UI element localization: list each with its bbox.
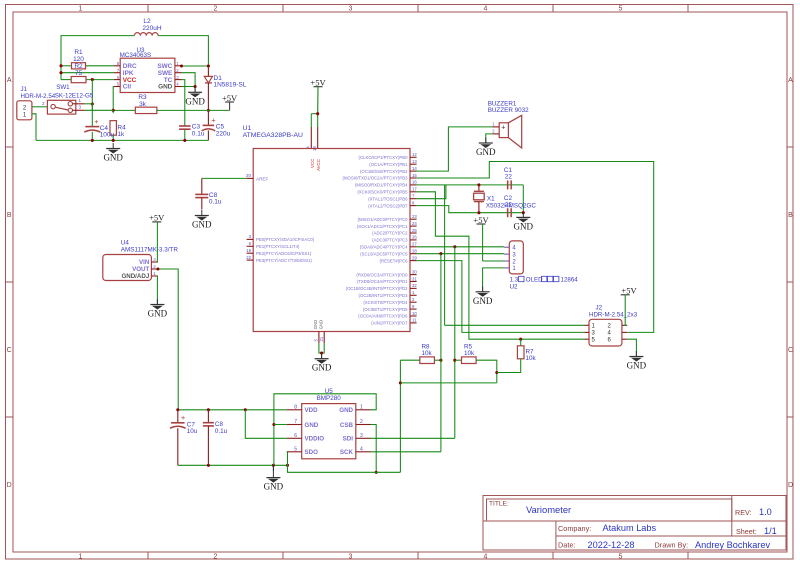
svg-text:GND: GND — [192, 220, 212, 230]
svg-text:Drawn By:: Drawn By: — [655, 541, 689, 550]
svg-text:(XTAL2/TOSC2)PB7: (XTAL2/TOSC2)PB7 — [368, 203, 408, 208]
svg-text:32: 32 — [412, 283, 417, 288]
svg-text:16: 16 — [412, 180, 417, 185]
svg-text:Company:: Company: — [558, 524, 591, 533]
svg-text:D: D — [788, 482, 793, 489]
svg-text:B: B — [7, 212, 12, 219]
svg-text:12: 12 — [412, 152, 417, 157]
svg-text:AVCC: AVCC — [316, 159, 321, 171]
svg-text:B: B — [788, 212, 793, 219]
svg-text:3: 3 — [349, 554, 353, 561]
svg-text:TITLE:: TITLE: — [489, 501, 509, 508]
svg-text:120: 120 — [73, 56, 84, 63]
svg-text:75: 75 — [75, 70, 83, 77]
svg-text:C: C — [788, 347, 793, 354]
svg-text:+5V: +5V — [473, 215, 489, 225]
svg-text:14: 14 — [412, 166, 417, 171]
svg-text:(XCK0/T0/PTCXY)PD4: (XCK0/T0/PTCXY)PD4 — [363, 300, 408, 305]
svg-text:4: 4 — [360, 447, 363, 453]
svg-text:10: 10 — [412, 311, 417, 316]
svg-text:+5V: +5V — [621, 286, 637, 296]
svg-text:1: 1 — [79, 6, 83, 13]
svg-text:+5V: +5V — [149, 213, 165, 223]
svg-text:24: 24 — [412, 221, 417, 226]
svg-text:5: 5 — [619, 554, 623, 561]
svg-text:4: 4 — [484, 554, 488, 561]
svg-text:(OC1B/SS0/PTCXY)PB2: (OC1B/SS0/PTCXY)PB2 — [360, 169, 408, 174]
svg-text:SDO: SDO — [305, 449, 319, 456]
svg-text:AMS1117MK-3.3/TR: AMS1117MK-3.3/TR — [121, 246, 179, 253]
svg-text:3: 3 — [360, 433, 363, 439]
svg-text:3: 3 — [349, 6, 353, 13]
svg-text:100u: 100u — [100, 132, 115, 139]
svg-text:PE2(PTCY/ADC6/ICP3/SS1): PE2(PTCY/ADC6/ICP3/SS1) — [256, 251, 312, 256]
svg-text:6: 6 — [294, 433, 297, 439]
svg-text:BUZZER 9032: BUZZER 9032 — [488, 107, 529, 114]
svg-text:VOUT: VOUT — [132, 266, 149, 273]
svg-text:29: 29 — [412, 255, 417, 260]
svg-text:20: 20 — [246, 173, 252, 178]
svg-text:AREF: AREF — [256, 177, 268, 182]
svg-text:VCC: VCC — [310, 159, 315, 168]
svg-text:BMP280: BMP280 — [317, 395, 342, 402]
svg-text:CSB: CSB — [340, 422, 354, 429]
svg-text:VDDIO: VDDIO — [305, 436, 325, 443]
svg-text:(OC0A/AIN0/PTCXY)PD6: (OC0A/AIN0/PTCXY)PD6 — [358, 314, 408, 319]
svg-text:28: 28 — [412, 249, 417, 254]
svg-text:220u: 220u — [216, 130, 231, 137]
svg-text:GND/ADJ: GND/ADJ — [121, 273, 149, 280]
svg-text:7: 7 — [294, 419, 297, 425]
svg-text:(MISO1/ADC0/PTCY)PC0: (MISO1/ADC0/PTCY)PC0 — [358, 217, 409, 222]
svg-text:SW1: SW1 — [56, 84, 70, 91]
svg-text:10k: 10k — [422, 350, 433, 357]
svg-text:10k: 10k — [464, 350, 475, 357]
svg-text:+5V: +5V — [310, 78, 326, 88]
svg-text:A: A — [788, 77, 793, 84]
svg-text:(MOSI0/TXD1/OC2A/PTCXY)PB3: (MOSI0/TXD1/OC2A/PTCXY)PB3 — [343, 176, 409, 181]
svg-text:(SCK1/ADC1/PTCXY)PC1: (SCK1/ADC1/PTCXY)PC1 — [357, 224, 408, 229]
svg-text:15: 15 — [412, 173, 417, 178]
svg-text:2: 2 — [214, 6, 218, 13]
svg-text:12864: 12864 — [561, 277, 579, 284]
svg-text:1/1: 1/1 — [764, 526, 777, 536]
svg-text:1N5819-SL: 1N5819-SL — [214, 82, 247, 89]
svg-text:Date:: Date: — [558, 541, 575, 550]
svg-text:OLED: OLED — [526, 277, 543, 284]
svg-text:GND: GND — [339, 407, 353, 414]
svg-text:GND: GND — [305, 422, 319, 429]
svg-text:31: 31 — [412, 276, 417, 281]
svg-text:1: 1 — [360, 405, 363, 411]
svg-text:U2: U2 — [510, 283, 518, 290]
svg-text:SK-12E12-G5: SK-12E12-G5 — [55, 93, 94, 100]
svg-text:1: 1 — [79, 554, 83, 561]
svg-text:11: 11 — [412, 318, 417, 323]
svg-text:C: C — [7, 347, 12, 354]
svg-text:D: D — [7, 482, 12, 489]
svg-text:+5V: +5V — [222, 93, 238, 103]
svg-text:1.0: 1.0 — [759, 507, 772, 517]
svg-text:0.1u: 0.1u — [192, 130, 205, 137]
svg-text:21: 21 — [319, 336, 324, 341]
svg-text:8: 8 — [294, 405, 297, 411]
svg-text:(XTAL1/TOSC1)PB6: (XTAL1/TOSC1)PB6 — [368, 196, 408, 201]
svg-text:25: 25 — [412, 228, 417, 233]
svg-text:Sheet:: Sheet: — [736, 527, 757, 536]
svg-text:GND: GND — [476, 147, 496, 157]
svg-text:GND: GND — [312, 363, 332, 373]
svg-text:2: 2 — [214, 554, 218, 561]
svg-text:(CLKO/ICP1/PTCXY)PB0: (CLKO/ICP1/PTCXY)PB0 — [359, 155, 409, 160]
svg-text:(OC1A/PTCXY)PB1: (OC1A/PTCXY)PB1 — [369, 162, 408, 167]
svg-text:10k: 10k — [526, 355, 537, 362]
svg-text:(AIN1/PTCXY)PD7: (AIN1/PTCXY)PD7 — [371, 321, 408, 326]
svg-text:GND: GND — [514, 221, 534, 231]
svg-text:VDD: VDD — [305, 407, 319, 414]
svg-text:(SDA0/ADC4/PTCY)PC4: (SDA0/ADC4/PTCY)PC4 — [360, 245, 408, 250]
svg-text:GND: GND — [158, 84, 173, 91]
svg-text:(RESET#)PC6: (RESET#)PC6 — [380, 258, 409, 263]
svg-text:22: 22 — [505, 174, 513, 181]
svg-text:10u: 10u — [187, 428, 198, 435]
svg-text:SDI: SDI — [343, 436, 354, 443]
svg-text:(RXD0/OC3A/PTCXY)PD0: (RXD0/OC3A/PTCXY)PD0 — [356, 272, 408, 277]
svg-text:GND: GND — [264, 482, 284, 492]
svg-text:0.1u: 0.1u — [209, 199, 222, 206]
svg-text:4: 4 — [484, 6, 488, 13]
svg-text:SCK: SCK — [340, 449, 354, 456]
svg-text:1k: 1k — [117, 131, 125, 138]
svg-text:(OC2B/INT1/PTCXY)PD3: (OC2B/INT1/PTCXY)PD3 — [359, 293, 409, 298]
svg-text:+: + — [181, 413, 186, 422]
svg-text:GND: GND — [319, 320, 324, 329]
svg-text:0.1u: 0.1u — [215, 428, 228, 435]
svg-text:(ADC3/PTCY)PC3: (ADC3/PTCY)PC3 — [372, 238, 408, 243]
svg-text:Atakum Labs: Atakum Labs — [603, 523, 657, 533]
svg-text:27: 27 — [412, 242, 417, 247]
svg-text:22: 22 — [505, 201, 513, 208]
svg-text:26: 26 — [412, 235, 417, 240]
svg-text:(XCK0/SCK0/PTCXY)PB5: (XCK0/SCK0/PTCXY)PB5 — [357, 190, 408, 195]
svg-text:+: + — [501, 125, 505, 132]
svg-text:MC34063S: MC34063S — [120, 52, 152, 59]
svg-text:(OC0B/T1/PTCXY)PD5: (OC0B/T1/PTCXY)PD5 — [363, 307, 408, 312]
svg-text:CII: CII — [123, 84, 131, 91]
svg-text:ATMEGA328PB-AU: ATMEGA328PB-AU — [243, 132, 303, 139]
svg-text:2: 2 — [360, 419, 363, 425]
svg-text:GND: GND — [103, 153, 123, 163]
svg-text:(ADC2/PTCY)PC2: (ADC2/PTCY)PC2 — [372, 231, 408, 236]
svg-text:PE1(PTCXY/SCL1/T4): PE1(PTCXY/SCL1/T4) — [256, 244, 300, 249]
svg-text:GND: GND — [148, 309, 168, 319]
svg-text:X1: X1 — [487, 195, 495, 202]
svg-text:23: 23 — [412, 214, 417, 219]
svg-text:17: 17 — [412, 187, 417, 192]
svg-text:REV:: REV: — [735, 508, 752, 517]
svg-text:(SCL0/ADC5/PTCY)PC5: (SCL0/ADC5/PTCY)PC5 — [360, 251, 408, 256]
svg-text:+: + — [94, 117, 99, 126]
svg-text:HDR-M-2.54: HDR-M-2.54 — [21, 93, 56, 100]
svg-text:19: 19 — [246, 248, 251, 253]
svg-text:5: 5 — [619, 6, 623, 13]
svg-text:PE0(PTCXY/SDA1/ICP4/AC0): PE0(PTCXY/SDA1/ICP4/AC0) — [256, 237, 315, 242]
svg-text:220uH: 220uH — [142, 25, 161, 32]
svg-text:A: A — [7, 77, 12, 84]
svg-text:22: 22 — [246, 255, 251, 260]
svg-text:GND: GND — [473, 296, 493, 306]
svg-text:R2: R2 — [74, 63, 83, 70]
svg-text:GND: GND — [313, 320, 318, 329]
svg-text:VIN: VIN — [139, 259, 150, 266]
svg-text:PE3(PTCY/ADC7/T3/MOSI1): PE3(PTCY/ADC7/T3/MOSI1) — [256, 258, 312, 263]
svg-text:(OC1B/OC4B/INT0/PTCXY)PD2: (OC1B/OC4B/INT0/PTCXY)PD2 — [346, 286, 408, 291]
svg-text:(MISO0/RXD1/PTCXY)PB4: (MISO0/RXD1/PTCXY)PB4 — [355, 183, 408, 188]
svg-text:Andrey Bochkarev: Andrey Bochkarev — [695, 540, 770, 550]
svg-text:5: 5 — [294, 447, 297, 453]
svg-text:(TXD0/OC4A/PTCXY)PD1: (TXD0/OC4A/PTCXY)PD1 — [357, 279, 408, 284]
svg-text:3k: 3k — [139, 101, 147, 108]
svg-text:GND: GND — [627, 361, 647, 371]
svg-text:13: 13 — [412, 159, 417, 164]
svg-text:U1: U1 — [243, 125, 252, 132]
svg-text:HDR-M-2.54_2x3: HDR-M-2.54_2x3 — [589, 311, 638, 318]
svg-text:Variometer: Variometer — [526, 504, 571, 515]
svg-text:2022-12-28: 2022-12-28 — [588, 540, 635, 550]
svg-text:30: 30 — [412, 269, 417, 274]
svg-text:GND: GND — [185, 96, 205, 106]
